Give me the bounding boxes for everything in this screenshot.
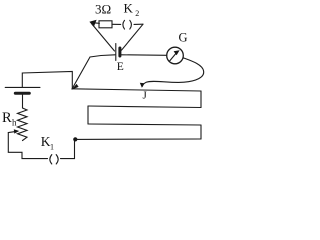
- rheostat wiper arrow: [8, 131, 16, 132]
- potentiometer wire row 3: [88, 124, 201, 125]
- svg-text:1: 1: [50, 143, 54, 152]
- key K2 right bracket: [130, 20, 132, 29]
- wire battery to rheostat: [22, 93, 24, 108]
- key K1 right bracket: [56, 155, 58, 164]
- resistor Rh (rheostat zigzag): [18, 108, 28, 141]
- potentiometer wire right side upper: [200, 91, 202, 108]
- svg-text:K: K: [124, 1, 134, 16]
- wire key K2 to right vertex: [134, 23, 143, 25]
- svg-text:h: h: [12, 118, 17, 128]
- wire key K1 to junction: [61, 140, 75, 159]
- svg-text:2: 2: [135, 9, 139, 18]
- wire cell E to galvanometer: [122, 54, 167, 57]
- wire top-left from driver battery to node A: [22, 72, 72, 89]
- potentiometer wire right side lower: [200, 125, 202, 139]
- cell E short thick plate: [118, 48, 121, 56]
- potentiometer wire row 1: [72, 89, 201, 91]
- svg-text:3Ω: 3Ω: [95, 2, 111, 17]
- diagonal left vertex to cell E: [92, 24, 115, 52]
- wire box to key K2: [112, 23, 121, 25]
- key K2 left bracket: [123, 20, 125, 29]
- potentiometer wire left side: [87, 106, 89, 124]
- svg-text:J: J: [143, 90, 148, 102]
- key K1 left bracket: [50, 155, 52, 164]
- jockey arrowhead: [140, 83, 145, 88]
- potentiometer wire row 4: [75, 138, 201, 140]
- wire node A to cell E: [72, 55, 115, 89]
- svg-text:R: R: [2, 110, 12, 126]
- wire wiper to key K1: [8, 133, 47, 159]
- svg-text:E: E: [117, 61, 124, 73]
- resistor 3-ohm box: [99, 21, 112, 28]
- diagonal right vertex to cell E: [122, 24, 144, 50]
- left vertex arrowhead: [89, 20, 96, 27]
- battery B1 (driver cell) long plate: [5, 86, 40, 88]
- galvanometer G circle: [167, 47, 184, 64]
- node A arrowhead: [71, 84, 78, 90]
- battery B1 short thick plate: [15, 92, 29, 95]
- wire galvanometer to jockey J (curve): [142, 58, 203, 86]
- potentiometer wire row 2: [88, 106, 201, 108]
- junction dot: [73, 137, 77, 141]
- cell E long plate: [115, 44, 117, 61]
- svg-text:G: G: [179, 31, 188, 45]
- wire left vertex to resistor box: [94, 22, 100, 25]
- galvanometer needle: [170, 53, 177, 61]
